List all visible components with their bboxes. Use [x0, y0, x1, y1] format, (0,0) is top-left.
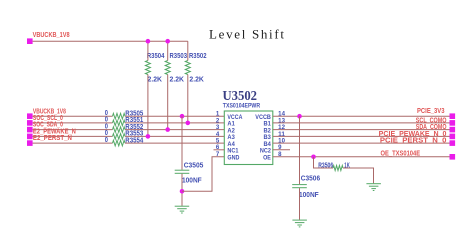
junction row2 / R3502: [186, 121, 191, 126]
junction C3505 branch / GND pin wire: [180, 189, 185, 194]
wire C3506 bottom to ground: [299, 188, 301, 220]
wire row1 to chip pin 1 (VCCA): [125, 115, 224, 117]
capacitor C3506 100NF: [292, 176, 320, 199]
wire row3 to chip pin 3 (A2): [125, 129, 224, 131]
svg-text:100NF: 100NF: [299, 192, 319, 199]
wire GND pin 7 to C3505 branch: [182, 157, 224, 192]
pin 9 NC2: [260, 145, 282, 154]
svg-text:E2_PERST_N: E2_PERST_N: [33, 135, 72, 142]
wire OE row from pin 8: [273, 156, 450, 158]
wire R3502 top leg: [187, 41, 189, 60]
port VBUCKB_1V8 (row 1): [27, 108, 66, 119]
wire row5 right segment: [273, 142, 450, 144]
svg-text:TXS0104EPWR: TXS0104EPWR: [223, 103, 261, 109]
svg-text:PCIE_3V3: PCIE_3V3: [417, 108, 445, 115]
junction row1-right / C3506 branch: [297, 114, 302, 119]
junction row3 / R3503: [165, 127, 170, 132]
svg-text:R3503: R3503: [170, 53, 188, 60]
wire row1 left segment: [33, 115, 113, 117]
svg-text:2.2K: 2.2K: [189, 77, 204, 84]
svg-text:C3506: C3506: [301, 176, 320, 183]
resistor R3503 2.2K pull-up: [165, 53, 187, 83]
pin 2 A1: [216, 118, 235, 127]
wire pin 9 NC2 stub: [273, 149, 290, 151]
pin 12 B2: [264, 125, 286, 134]
ground at R3506: [366, 184, 381, 191]
wire row3 left segment: [33, 129, 113, 131]
pin 10 B4: [264, 139, 286, 148]
junction top rail / R3504: [146, 39, 151, 44]
port SCL_COMO: [416, 117, 455, 125]
pin 7 GND: [216, 152, 240, 161]
wire row2 left segment: [33, 122, 113, 124]
wire R3502 bottom leg: [187, 75, 189, 123]
wire R3504 bottom leg: [147, 75, 149, 137]
wire R3503 bottom leg: [167, 75, 169, 130]
wire row3 right segment: [273, 129, 450, 131]
svg-text:NC2: NC2: [260, 148, 271, 155]
wire row2 to chip pin 2 (A1): [125, 122, 224, 124]
resistor R3504 2.2K pull-up: [145, 53, 164, 83]
resistor R3553 0 ohm: [105, 130, 144, 139]
svg-text:GND: GND: [227, 155, 239, 162]
svg-text:VBUCKB_1V8: VBUCKB_1V8: [33, 30, 70, 39]
svg-text:OE: OE: [263, 155, 271, 162]
junction row1 / C3505 branch: [180, 114, 185, 119]
svg-text:PCIE_PERST_N_0: PCIE_PERST_N_0: [380, 138, 447, 145]
svg-text:NC1: NC1: [227, 148, 238, 155]
pin 11 B3: [264, 132, 286, 141]
port SDA_COMO: [416, 124, 455, 132]
junction row4 / R3504: [146, 134, 151, 139]
wire row5 to chip pin 5 (A4): [125, 142, 224, 144]
resistor R3554 0 ohm: [105, 137, 144, 146]
port SOC_SDA_0 (row 3): [27, 122, 63, 133]
svg-text:C3505: C3505: [184, 163, 204, 170]
svg-text:0: 0: [105, 137, 108, 144]
ground at C3505: [175, 206, 190, 213]
wire R3506 to ground: [343, 168, 374, 183]
wire R3506 branch from OE junction: [314, 157, 334, 168]
svg-text:100NF: 100NF: [182, 178, 202, 185]
wire row4 left segment: [33, 135, 113, 137]
svg-text:U3502: U3502: [223, 88, 258, 103]
port SOC_SCL_0 (row 2): [27, 115, 63, 126]
pin 3 A2: [216, 125, 235, 134]
wire pin 6 NC1 stub: [214, 149, 225, 151]
port PCIE_PERST_N_0: [380, 138, 455, 146]
svg-text:2.2K: 2.2K: [170, 77, 185, 84]
junction top rail / R3503: [165, 39, 170, 44]
wire row1 right segment: [273, 115, 450, 117]
pin 5 A4: [216, 139, 235, 148]
pin 6 NC1: [216, 145, 239, 154]
wire top rail VBUCKB_1V8: [33, 40, 188, 42]
wire row4 right segment: [273, 135, 450, 137]
port E2_PERST_N (row 5): [27, 135, 72, 146]
pin 1 VCCA: [216, 112, 243, 121]
wire row2 right segment: [273, 122, 450, 124]
port VBUCKB_1V8 (top rail): [27, 30, 70, 44]
svg-text:R3504: R3504: [147, 53, 165, 60]
pin 4 A3: [216, 132, 235, 141]
resistor R3502 2.2K pull-up: [185, 53, 206, 83]
svg-text:R3506: R3506: [318, 162, 333, 169]
svg-text:2.2K: 2.2K: [148, 77, 163, 84]
resistor R3551 0 ohm: [105, 117, 144, 126]
port OE_TXS0104E: [381, 151, 456, 160]
pin 13 B1: [264, 118, 286, 127]
wire C3505 bottom to ground: [181, 174, 183, 206]
resistor R3506 1K: [318, 162, 350, 170]
svg-text:OE_TXS0104E: OE_TXS0104E: [381, 151, 421, 158]
pin 14 VCCB: [255, 112, 285, 121]
junction OE / R3506 branch: [311, 155, 316, 160]
resistor R3552 0 ohm: [105, 123, 144, 132]
wire C3505 branch down from row1: [181, 116, 183, 170]
port E2_PEWAKE_N (row 4): [27, 129, 76, 140]
port PCIE_3V3: [417, 108, 455, 119]
ground at C3506: [292, 220, 307, 227]
resistor R3505 0 ohm: [105, 110, 144, 119]
wire row4 to chip pin 4 (A3): [125, 135, 224, 137]
wire R3503 top leg: [167, 41, 169, 60]
wire row5 left segment: [33, 142, 113, 144]
wire C3506 branch down from row1-right: [299, 116, 301, 184]
port PCIE_PEWAKE_N_0: [379, 131, 455, 139]
svg-text:11: 11: [278, 132, 286, 138]
wire R3504 top leg: [147, 41, 149, 60]
capacitor C3505 100NF: [175, 163, 204, 185]
pin 8 OE: [263, 152, 282, 161]
svg-text:R3502: R3502: [189, 53, 207, 60]
IC U3502 TXS0104EPWR level shifter: [223, 88, 273, 165]
